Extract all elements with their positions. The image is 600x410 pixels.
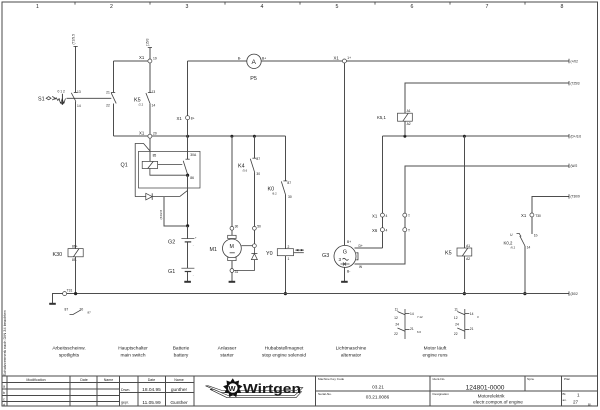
switch S1 [38,90,67,106]
svg-text:Designation: Designation [433,392,450,396]
svg-text:P5: P5 [250,76,257,82]
svg-text:Batterie: Batterie [173,345,190,351]
svg-text:24: 24 [395,323,399,327]
svg-text:(34/2.8: (34/2.8 [159,210,163,220]
svg-text:(725/3: (725/3 [571,82,580,86]
wire T30 net [532,196,569,213]
ammeter P5 [247,54,261,68]
svg-text:Serial-No.: Serial-No. [318,392,332,396]
wire net 725 [405,83,569,113]
SCHEMATIC [38,34,285,249]
svg-text:B+: B+ [262,57,266,61]
column numbers [36,4,564,10]
svg-text:X6: X6 [372,228,378,233]
description labels [52,345,448,358]
svg-text:-: - [193,273,194,277]
wire W to right edge [405,166,569,213]
contact blade Q1 [183,161,188,175]
junction busA x232 [230,135,233,138]
wire K5.1 to busB [404,121,406,136]
solenoid Y0 [266,136,304,295]
svg-text:Arbeitsscheinw.: Arbeitsscheinw. [52,345,85,351]
svg-text:(30/2: (30/2 [571,292,578,296]
terminal 31 [230,269,234,273]
svg-text:gepr.: gepr. [121,401,129,405]
svg-text:4: 4 [386,214,388,218]
svg-text:86+: 86+ [72,245,78,249]
svg-text:A1: A1 [407,109,411,113]
svg-text:4: 4 [386,229,388,233]
svg-text:3: 3 [339,257,342,262]
wire tap 34 [164,197,186,226]
svg-text:1: 1 [36,4,39,10]
svg-text:7.12: 7.12 [417,315,423,319]
svg-text:Plan: Plan [564,377,570,381]
wire P5 left leg [188,61,248,136]
svg-text:12: 12 [454,316,458,320]
svg-text:19: 19 [153,57,157,61]
svg-text:13: 13 [152,90,156,94]
wire bus to ground left [53,294,63,303]
svg-text:(+/02: (+/02 [571,59,579,63]
wire 50 to solenoid [253,230,255,244]
svg-text:14: 14 [527,245,531,249]
wire G2 to G1 [187,243,189,269]
wire 30 to motor [231,230,233,235]
svg-text:22: 22 [394,332,398,336]
svg-text:Machine Key Code: Machine Key Code [318,377,344,381]
svg-text:A2: A2 [466,257,470,261]
wire busB to K5 coil [463,136,465,248]
svg-text:G1: G1 [168,269,175,275]
svg-text:1b: 1b [534,234,538,238]
svg-text:an.: an. [563,398,567,402]
svg-text:G2: G2 [168,239,175,245]
mechanical link S1 [67,97,112,99]
svg-text:22: 22 [106,104,110,108]
svg-text:X1: X1 [334,55,340,60]
svg-text:5: 5 [336,4,339,10]
wire to G2 [187,226,189,239]
bus A wire [152,135,286,137]
svg-text:K30: K30 [53,252,63,258]
svg-text:Y0: Y0 [266,251,273,257]
svg-text:c: c [3,397,5,401]
ground G3 [341,281,348,283]
svg-text:spotlights: spotlights [59,352,80,358]
svg-text:11: 11 [395,308,399,312]
wire coil bottom to output [150,169,188,176]
svg-text:Drwn.: Drwn. [121,388,130,392]
svg-text:21: 21 [410,327,414,331]
svg-text:X1: X1 [139,55,145,60]
wire K0 to Y0 [284,195,286,249]
terminal W lower [403,228,407,232]
svg-text:A1: A1 [466,244,470,248]
ground G1 [187,278,189,281]
svg-text:K5: K5 [445,251,452,257]
svg-text:Wirtgen: Wirtgen [243,381,301,396]
wire X1-20 to coil 85 [149,138,151,161]
svg-text:/2.2: /2.2 [139,103,144,107]
svg-text:B-: B- [238,57,241,61]
svg-text:Lichtmaschine: Lichtmaschine [336,345,367,351]
terminal X6 pin D [380,228,384,232]
svg-text:alternator: alternator [341,352,362,358]
wire bypass branch top [113,61,148,92]
svg-text:1: 1 [577,392,580,397]
svg-text:G3: G3 [322,253,329,259]
bottom bus [49,289,578,305]
svg-text:b: b [3,391,5,395]
terminal solenoid [253,244,257,248]
diode M1 [253,248,255,254]
svg-text:30: 30 [235,224,239,228]
arrows Y0 [295,249,303,251]
wire K5 branch upper [149,63,151,92]
svg-text:11: 11 [454,308,458,312]
wire M1 to 31 [231,261,233,269]
svg-text:14: 14 [470,312,474,316]
svg-text:Motor läuft: Motor läuft [424,345,447,351]
svg-text:(15/3: (15/3 [146,38,150,46]
svg-text:20: 20 [153,132,157,136]
svg-text:21: 21 [470,327,474,331]
svg-text:7: 7 [486,4,489,10]
logo Wirtgen [206,378,303,398]
junction K5.1 [403,135,406,138]
svg-text:Date: Date [80,378,88,382]
svg-text:X1: X1 [177,116,183,121]
svg-text:4: 4 [261,4,264,10]
svg-text:W: W [229,384,237,393]
svg-text:a: a [3,385,5,389]
svg-text:Anlasser: Anlasser [218,345,237,351]
TITLE BLOCK [2,376,597,406]
svg-text:engine runs: engine runs [422,352,448,358]
terminal X1 pin T30 [530,213,534,217]
svg-text:30: 30 [288,195,292,199]
svg-text:T: T [408,214,410,218]
wire K4 upper [253,136,255,158]
contact mirror K5 [454,308,479,340]
contact mirror K5.1 [394,308,423,340]
svg-text:27: 27 [573,400,579,405]
stub motor side terminal [241,245,252,247]
svg-text:M: M [230,244,234,250]
wire S1 to K30 [75,102,77,249]
wire W terminal [355,232,405,264]
svg-text:(D+/3.6: (D+/3.6 [571,135,582,139]
actuation link Q1 [158,164,183,166]
svg-text:Date: Date [148,378,156,382]
terminal W upper [403,213,407,217]
svg-text:124801-0000: 124801-0000 [466,384,505,391]
svg-text:31: 31 [235,270,239,274]
svg-text:main switch: main switch [120,352,145,358]
svg-text:14: 14 [77,104,81,108]
ground M1 [229,281,236,283]
svg-text:Spra.: Spra. [527,377,535,381]
svg-text:87: 87 [88,311,92,315]
K0.2 branch [504,194,580,295]
svg-text:-: - [193,244,194,248]
wire X1 to busB [381,136,383,213]
svg-text:1+: 1+ [347,56,351,60]
wire to right edge net + [346,60,569,62]
wire X1-19 stub [149,48,151,59]
svg-text:battery: battery [174,352,189,358]
svg-text:85: 85 [153,153,157,157]
junction 86 [186,174,189,177]
svg-text:30: 30 [80,308,84,312]
terminal X1 pin 19 [148,59,152,63]
wire S1 branch upper [75,46,77,92]
svg-text:(W/2: (W/2 [571,164,578,168]
svg-text:86: 86 [190,176,194,180]
svg-text:6: 6 [411,4,414,10]
svg-text:/6.2: /6.2 [272,192,277,196]
svg-text:1: 1 [288,257,290,261]
wire D+ [355,232,383,248]
svg-text:Q1: Q1 [121,163,128,169]
terminal X1 pin 8 [186,116,190,120]
alternator G3 [322,63,577,283]
column ticks top [75,2,525,5]
Q1 bottom chamfer [180,191,188,197]
svg-text:stop engine solenoid: stop engine solenoid [262,352,306,358]
Q1 outer outline [135,144,150,197]
svg-text:Hauptschalter: Hauptschalter [118,345,148,351]
diode Q1 [135,196,180,198]
svg-text:starter: starter [220,352,234,358]
batteries [168,226,197,283]
junction K30 bus [74,292,77,295]
contact S1 21-22 [111,93,116,104]
wire P5 to X1 [261,60,342,62]
terminal X1 pin 20 [148,134,152,138]
junction battery top [186,224,189,227]
terminal 50 [253,226,257,230]
junction Y0 bus [284,292,287,295]
svg-text:14: 14 [152,104,156,108]
wire X6 to X1 [381,217,383,228]
svg-text:T: T [408,229,410,233]
junction K5 coil [463,135,466,138]
svg-text:24: 24 [455,323,459,327]
svg-text:8+: 8+ [191,117,195,121]
regulator tab G3 [356,253,358,260]
coil K30 [68,249,83,257]
svg-text:(T2/9.5: (T2/9.5 [71,34,75,45]
svg-text:14: 14 [410,312,414,316]
svg-text:K5,1: K5,1 [377,115,386,120]
starter M1 [210,136,262,283]
svg-text:Motorelektrik: Motorelektrik [478,394,505,399]
wire K5 contact to X1-20 [149,104,151,134]
bus A corner to K0 [284,136,286,181]
svg-text:M1: M1 [210,247,218,253]
terminal X1 pin D [380,213,384,217]
svg-text:13: 13 [77,90,81,94]
svg-text:12: 12 [394,316,398,320]
terminal 30 [230,226,234,230]
wire 31 to ground [231,272,233,280]
Q1 inner box [139,151,201,188]
svg-text:(T30/9: (T30/9 [571,195,580,199]
svg-text:2: 2 [110,4,113,10]
svg-text:6.6: 6.6 [417,330,421,334]
D+ bus and relays [377,81,581,295]
svg-text:B-: B- [347,270,350,274]
wire Y0 to bus31 [284,256,286,294]
svg-text:8: 8 [561,4,564,10]
relay K30 [53,245,92,315]
svg-text:/5.6: /5.6 [243,169,248,173]
wire X1 to contact [531,217,533,234]
svg-text:03.21.0086: 03.21.0086 [366,394,390,399]
svg-text:S1: S1 [38,97,45,103]
svg-text:T30: T30 [535,214,541,218]
svg-text:A2: A2 [407,122,411,126]
svg-text:electr.compon.of engine: electr.compon.of engine [473,399,523,404]
svg-text:Name: Name [104,378,114,382]
svg-text:d: d [3,403,5,407]
svg-text:87: 87 [287,181,291,185]
svg-text:Hubabstellmagnet: Hubabstellmagnet [265,345,304,351]
svg-text:D+: D+ [359,244,363,248]
wire W mid [404,217,406,228]
junction K0.2 bus [523,292,526,295]
bus B wire [382,135,569,137]
svg-text:A: A [252,59,257,66]
svg-text:21: 21 [106,91,110,95]
svg-text:Modification: Modification [26,378,45,382]
wire busA to 30 [231,136,233,226]
svg-text:03.21: 03.21 [372,384,384,389]
terminal 31 circle [63,292,67,296]
terminal X1 pin 1+ [342,59,346,63]
junction busA x188 [186,135,189,138]
S1 contact 13-14 [71,93,76,102]
junction K5 bus [463,292,466,295]
bus 31 wire [67,293,569,295]
svg-text:11.05.99: 11.05.99 [142,400,161,406]
svg-text:Ident-No.: Ident-No. [433,377,446,381]
svg-text:gunther: gunther [171,387,188,393]
wire 30A stub [187,136,189,159]
svg-text:50: 50 [257,224,261,228]
svg-text:T31: T31 [67,289,73,293]
svg-text:B+: B+ [347,240,351,244]
wire B- to ground [343,267,345,280]
wire K5 coil to bus31 [463,256,465,294]
svg-text:X1: X1 [139,131,145,136]
svg-text:30A: 30A [190,153,197,157]
wire output to battery [187,175,189,226]
svg-text:2: 2 [288,245,290,249]
svg-text:X1: X1 [521,213,527,218]
Q1 main switch [121,136,201,227]
junction busA x255 [253,135,256,138]
svg-text:30: 30 [256,172,260,176]
svg-text:G: G [343,249,347,255]
coil Q1 [142,161,157,168]
svg-text:87: 87 [65,308,69,312]
svg-text:3: 3 [186,4,189,10]
svg-text:87: 87 [256,157,260,161]
svg-text:18.04.95: 18.04.95 [142,387,161,393]
wire contact to bus31 [524,246,526,294]
svg-text:Schutzvermerk nach DIN 34 beac: Schutzvermerk nach DIN 34 beachten [2,310,7,376]
svg-text:/6.2: /6.2 [511,245,516,249]
wire G1 to ground [187,272,189,278]
svg-text:Gunther: Gunther [170,400,188,406]
svg-text:X1: X1 [372,213,378,218]
svg-text:Bl.: Bl. [563,392,567,396]
wire X1 to B+ [343,63,345,245]
svg-text:22: 22 [454,332,458,336]
wire K30 to bus [75,257,77,294]
svg-text:0 1 2: 0 1 2 [58,90,65,94]
wire K4 to 50 [253,173,255,227]
svg-text:Name: Name [174,378,184,382]
svg-text:Bl.: Bl. [588,402,592,406]
P5 branch [177,54,579,136]
wire bypass branch lower [113,103,147,136]
ground left [49,303,56,305]
